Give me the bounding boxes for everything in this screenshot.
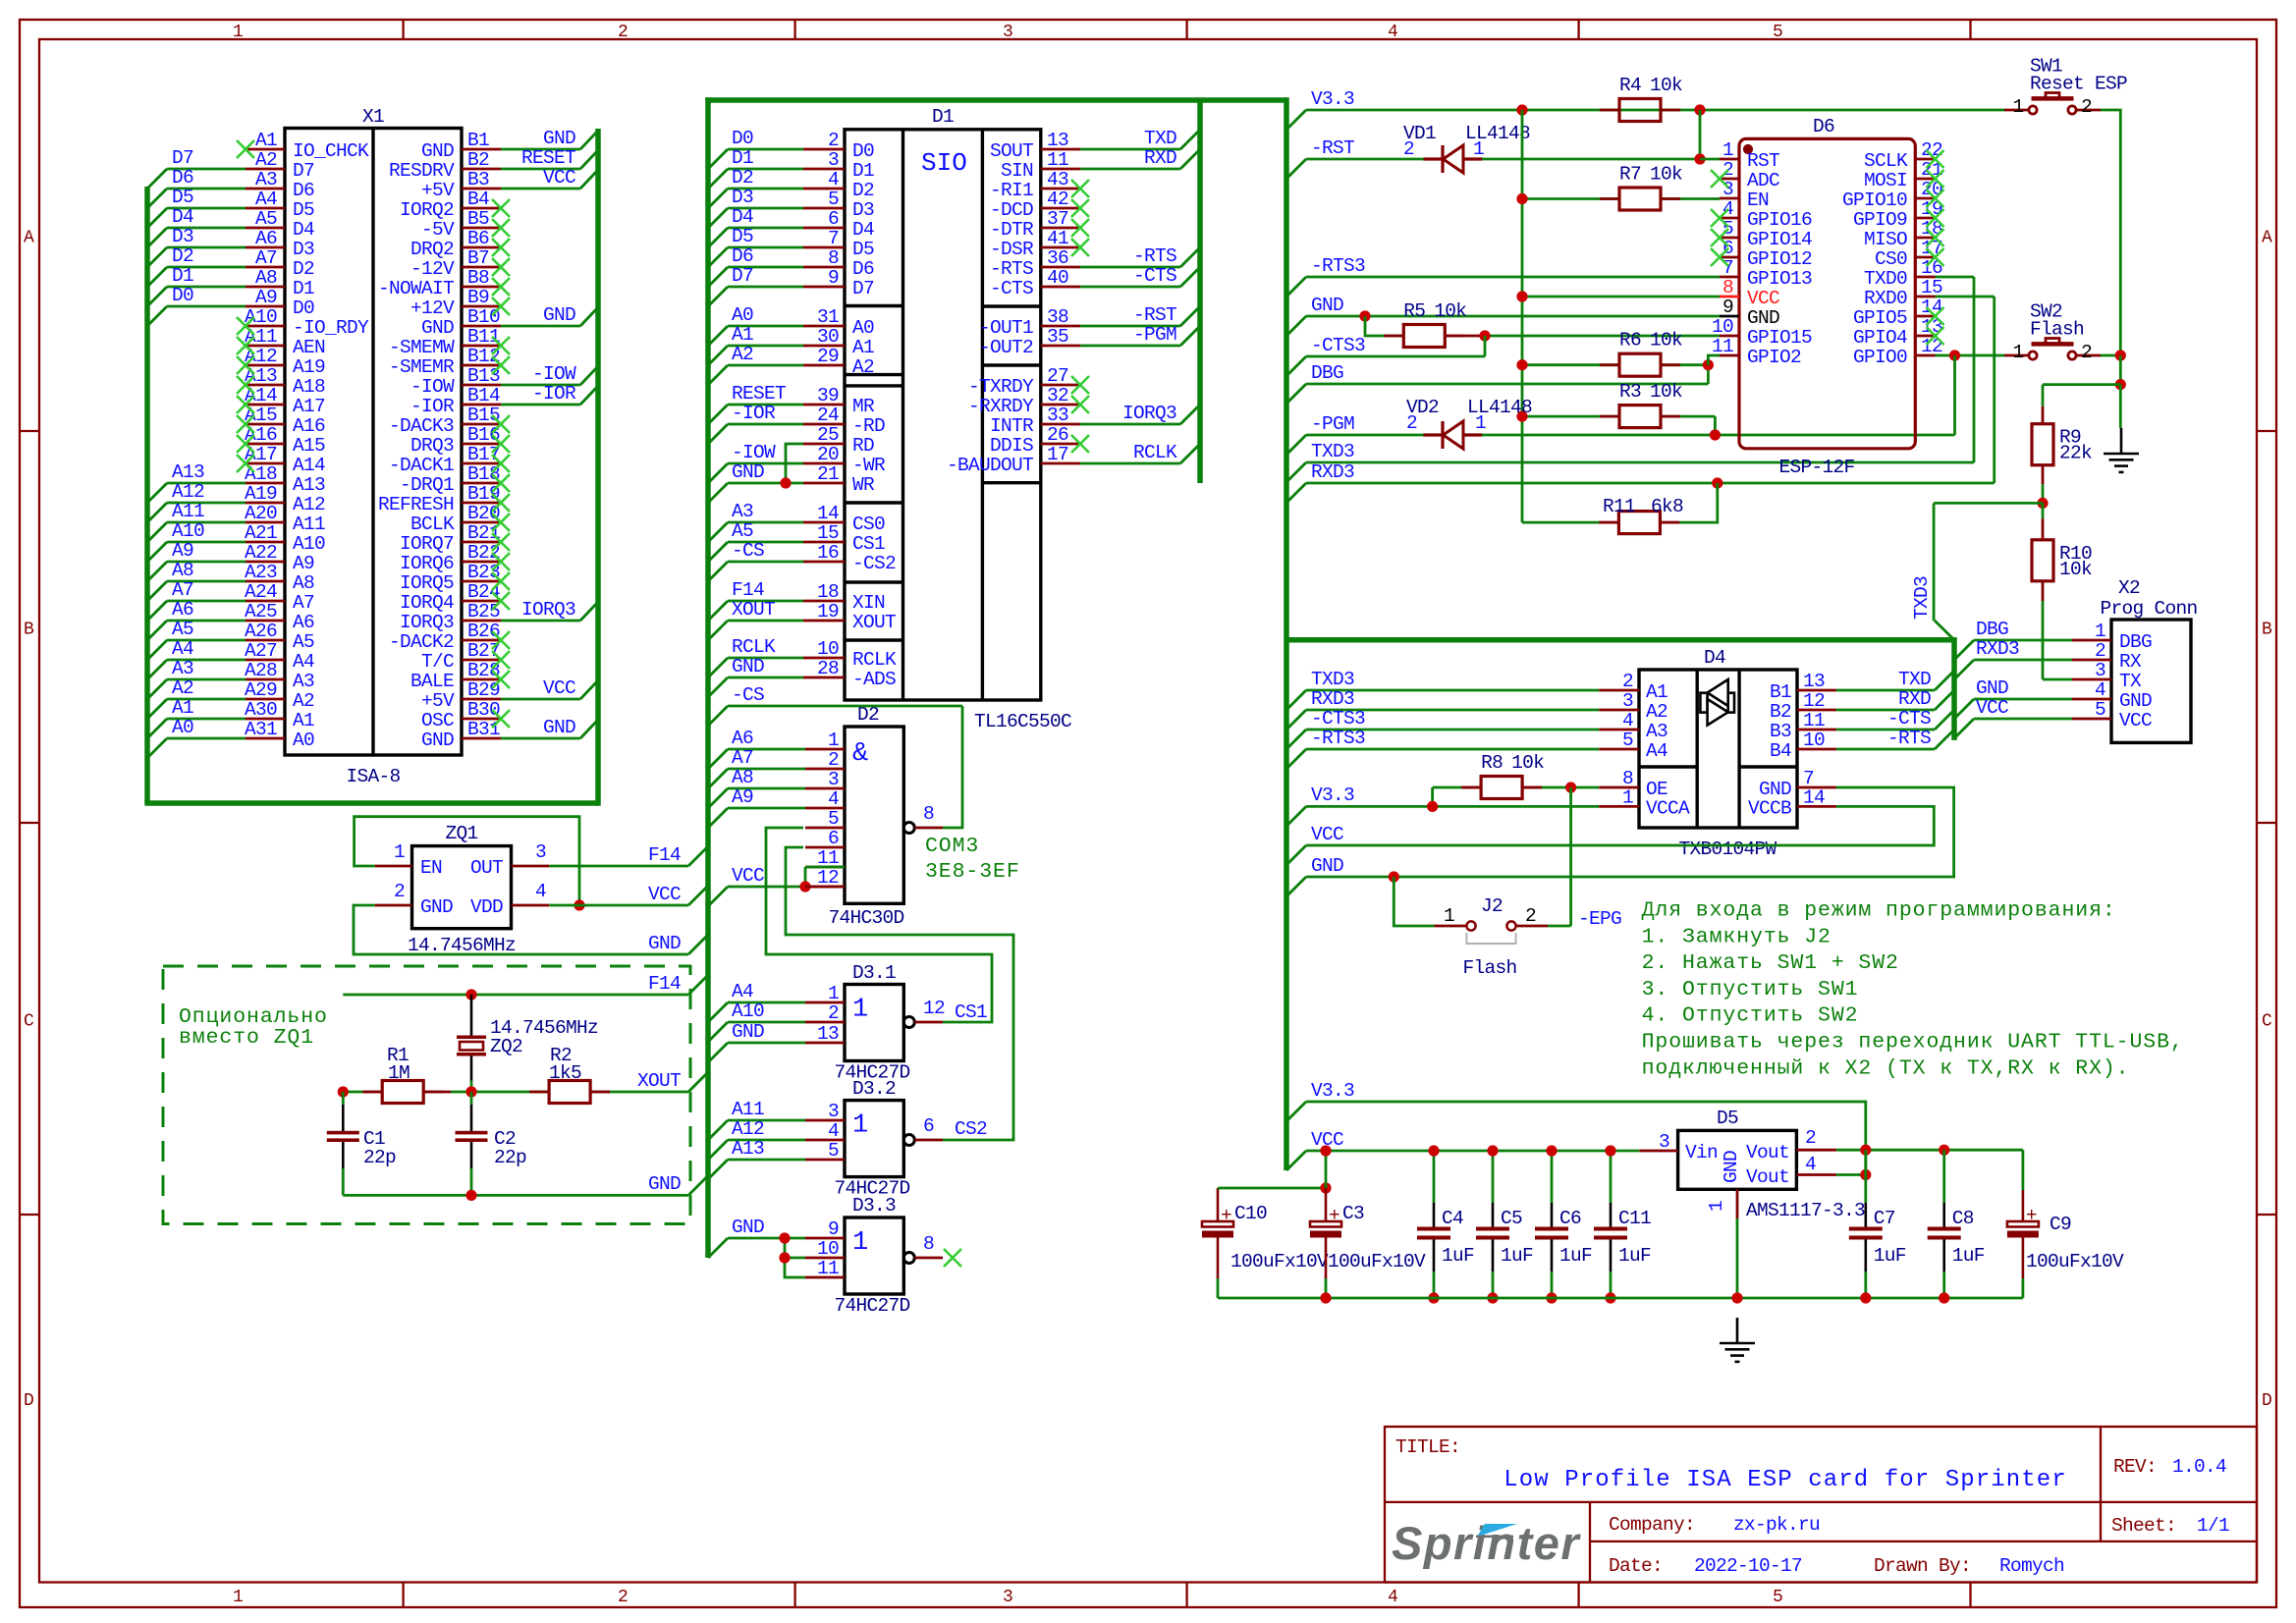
D1 pin 37 -DTR: [1041, 227, 1080, 230]
svg-text:B10: B10: [467, 306, 500, 328]
X1 pin A22: [246, 561, 285, 564]
resistor R6 10k: [1619, 353, 1661, 376]
X1 pin B27: [462, 659, 501, 662]
svg-text:IORQ2: IORQ2: [400, 199, 454, 221]
svg-text:GPIO0: GPIO0: [1853, 347, 1907, 368]
svg-text:Prog Conn: Prog Conn: [2100, 598, 2197, 620]
svg-text:-TXRDY: -TXRDY: [968, 376, 1034, 398]
svg-text:X1: X1: [362, 106, 384, 128]
ZQ1 pin 3 OUT: [512, 865, 550, 868]
svg-text:A0: A0: [293, 730, 314, 751]
D3.1 pin 2: [805, 1021, 845, 1024]
svg-text:C3: C3: [1342, 1203, 1364, 1224]
wire TXD3 to R9/R10 junction: [1934, 502, 2043, 505]
svg-text:A9: A9: [172, 540, 193, 562]
svg-text:A5: A5: [255, 208, 277, 230]
D1 pin 38 -OUT1: [1041, 325, 1080, 328]
svg-text:11: 11: [1712, 336, 1733, 357]
svg-text:-SMEMW: -SMEMW: [389, 337, 455, 358]
X1 pin B9: [462, 305, 501, 308]
svg-text:10: 10: [817, 638, 839, 660]
D1 pin 30 A1: [803, 345, 845, 348]
svg-text:A8: A8: [732, 767, 753, 788]
D1 pin 3 D1: [803, 168, 845, 171]
svg-text:D3.2: D3.2: [852, 1078, 896, 1100]
X1 pin B28: [462, 678, 501, 681]
svg-text:A3: A3: [732, 501, 753, 522]
D5 pin 4 Vout: [1796, 1173, 1836, 1176]
svg-text:B18: B18: [467, 463, 500, 485]
svg-text:VCC: VCC: [1311, 824, 1343, 845]
X1 pin A24: [246, 600, 285, 603]
D6 pin 14 GPIO5: [1915, 315, 1935, 318]
X1 pin B20: [462, 521, 501, 524]
svg-text:R8: R8: [1481, 752, 1503, 774]
junction R7 V3.3: [1516, 193, 1527, 204]
wire F14 optional: [343, 994, 688, 997]
wire -CTS3: [1306, 355, 1485, 358]
bus D1 left vertical: [705, 97, 711, 1258]
resistor R9 22k: [2032, 424, 2053, 465]
svg-text:1uF: 1uF: [1874, 1245, 1906, 1267]
svg-text:-PGM: -PGM: [1311, 413, 1354, 435]
D1 pin 17 -BAUDOUT: [1041, 462, 1080, 465]
svg-text:GPIO9: GPIO9: [1853, 209, 1907, 231]
wire VCC pin8: [1522, 296, 1720, 298]
D1 pin 5 D3: [803, 207, 845, 210]
X1 pin B2: [462, 168, 501, 171]
svg-text:A4: A4: [1646, 740, 1667, 762]
X2 wires: [1974, 639, 2072, 642]
IC D3.3 74HC27D: [845, 1217, 903, 1294]
svg-text:B13: B13: [467, 365, 500, 387]
svg-text:32: 32: [1047, 385, 1068, 406]
X1 pin A17: [246, 462, 285, 465]
svg-text:DBG: DBG: [2119, 631, 2152, 653]
svg-text:RCLK: RCLK: [852, 649, 897, 671]
svg-text:TXD3: TXD3: [1311, 441, 1354, 462]
svg-text:1: 1: [233, 1588, 243, 1607]
D1 pin 31 A0: [803, 325, 845, 328]
ground power rail: [1720, 1318, 1755, 1362]
junction V3.3 R4: [1516, 104, 1527, 115]
svg-text:VDD: VDD: [470, 896, 503, 918]
junction R4 SW1: [1694, 104, 1705, 115]
svg-text:C8: C8: [1952, 1208, 1974, 1229]
D4 B-side wires: [1836, 689, 1935, 692]
svg-text:REV:: REV:: [2113, 1456, 2157, 1478]
svg-text:BALE: BALE: [410, 671, 454, 692]
wire R4 to -RST: [1699, 110, 1702, 159]
D1 left wires from bus: [728, 148, 803, 151]
D5 pin 3 Vin: [1639, 1150, 1677, 1153]
D1 pin 35 -OUT2: [1041, 345, 1080, 348]
svg-text:IORQ3: IORQ3: [521, 599, 575, 621]
svg-text:A6: A6: [732, 728, 753, 749]
X1 pin B17: [462, 462, 501, 465]
svg-text:11: 11: [1803, 710, 1825, 731]
svg-text:D1: D1: [852, 160, 874, 182]
junction C8 top: [1939, 1145, 1949, 1156]
svg-text:ADC: ADC: [1747, 170, 1779, 191]
svg-text:GND: GND: [1311, 855, 1343, 877]
junction crystal node: [465, 1086, 476, 1097]
svg-text:J2: J2: [1481, 895, 1503, 917]
svg-text:27: 27: [1047, 365, 1068, 387]
D5 pin 1 GND: [1736, 1189, 1739, 1218]
svg-text:D4: D4: [852, 219, 874, 241]
D6 pin 13 GPIO4: [1915, 335, 1935, 338]
svg-text:RXD3: RXD3: [1976, 638, 2019, 660]
svg-text:D5: D5: [732, 226, 753, 247]
D4 pin 1 VCCA: [1599, 805, 1639, 808]
X1 pin A30: [246, 718, 285, 721]
svg-text:D1: D1: [293, 278, 314, 299]
X1 pin A15: [246, 423, 285, 426]
X1 pin A9: [246, 305, 285, 308]
svg-text:1: 1: [852, 1228, 868, 1258]
svg-text:+: +: [2026, 1205, 2037, 1226]
X1 pin B31: [462, 737, 501, 740]
svg-text:-OUT1: -OUT1: [979, 317, 1033, 339]
svg-text:AMS1117-3.3: AMS1117-3.3: [1746, 1200, 1865, 1221]
svg-text:B27: B27: [467, 640, 500, 662]
D1 pin 9 D7: [803, 286, 845, 289]
capacitor C7 1uF: [1864, 1150, 1867, 1203]
svg-text:1M: 1M: [388, 1062, 410, 1084]
svg-text:B26: B26: [467, 621, 500, 642]
svg-text:4: 4: [1622, 710, 1633, 731]
svg-text:A9: A9: [255, 287, 277, 308]
svg-text:A9: A9: [732, 786, 753, 808]
svg-text:A1: A1: [255, 130, 277, 151]
svg-text:5: 5: [1773, 1588, 1782, 1607]
D6 pin 20 GPIO10: [1915, 197, 1935, 200]
X1 no-connect marks B side: [492, 199, 510, 217]
resistor R4 10k: [1619, 99, 1661, 122]
wire J2 left to GND: [1394, 877, 1434, 926]
svg-text:22p: 22p: [363, 1147, 396, 1168]
X1 pin B11: [462, 345, 501, 348]
X1 no-connect marks A side: [237, 140, 254, 158]
svg-text:-DACK1: -DACK1: [389, 455, 454, 476]
svg-text:A19: A19: [245, 483, 277, 505]
svg-text:2: 2: [618, 1588, 628, 1607]
svg-text:10: 10: [1803, 730, 1825, 751]
svg-text:B20: B20: [467, 503, 500, 524]
svg-text:+12V: +12V: [410, 298, 455, 319]
svg-text:D: D: [2262, 1391, 2271, 1411]
svg-text:VCC: VCC: [648, 884, 681, 905]
junction R3 V3.3: [1516, 411, 1527, 422]
diode VD2 LL4148: [1424, 433, 1444, 436]
capacitor C3 100uFx10V: [1310, 1221, 1341, 1227]
junction R1 left: [338, 1086, 349, 1097]
X1 pin A5: [246, 227, 285, 230]
D2 pin 11: [805, 866, 845, 869]
svg-text:17: 17: [1047, 444, 1068, 465]
svg-text:A15: A15: [293, 435, 325, 457]
svg-text:1: 1: [828, 730, 839, 751]
svg-text:B2: B2: [1770, 701, 1791, 723]
svg-text:-BAUDOUT: -BAUDOUT: [947, 455, 1033, 476]
svg-text:MISO: MISO: [1864, 229, 1907, 250]
svg-text:ISA-8: ISA-8: [346, 766, 400, 787]
D6 pin 4 GPIO16: [1720, 217, 1739, 220]
svg-text:GND: GND: [1976, 677, 2008, 699]
D1 pin 26 DDIS: [1041, 443, 1080, 446]
X1 pin B21: [462, 541, 501, 544]
svg-text:10: 10: [1712, 316, 1733, 338]
svg-text:1: 1: [1444, 905, 1454, 927]
svg-text:D5: D5: [852, 239, 874, 260]
D1 pin 14 CS0: [803, 521, 845, 524]
D3.1 input wires: [728, 1001, 805, 1004]
svg-text:CS0: CS0: [1875, 248, 1907, 270]
svg-text:D5: D5: [1717, 1108, 1738, 1129]
bus D1 top horizontal: [705, 97, 1286, 103]
svg-text:A31: A31: [245, 719, 277, 740]
svg-text:A22: A22: [245, 542, 277, 564]
svg-text:BCLK: BCLK: [410, 514, 455, 535]
D6 pin 16 TXD0: [1915, 276, 1935, 279]
X1 pin A14: [246, 404, 285, 406]
svg-text:14: 14: [817, 503, 839, 524]
svg-text:1: 1: [233, 23, 243, 42]
junction -RST ESP pin1: [1694, 153, 1705, 164]
svg-text:13: 13: [817, 1023, 839, 1045]
svg-text:42: 42: [1047, 189, 1068, 210]
svg-text:100uFx10V: 100uFx10V: [2026, 1251, 2124, 1272]
svg-text:11: 11: [817, 1258, 839, 1279]
D2 pin 3: [805, 787, 845, 790]
D6 pin 9 GND: [1720, 315, 1739, 318]
svg-text:SIO: SIO: [921, 148, 967, 178]
D4 level shifter triangles: [1700, 693, 1707, 713]
svg-text:2: 2: [2095, 640, 2105, 662]
wire OE down to J2: [1569, 787, 1572, 926]
svg-text:1: 1: [2012, 96, 2023, 118]
connector X1 ISA-8: [285, 129, 462, 756]
X1 pin A13: [246, 384, 285, 387]
svg-text:Date:: Date:: [1609, 1555, 1663, 1577]
svg-text:D2: D2: [293, 258, 314, 280]
D4 pin 8 OE: [1599, 786, 1639, 789]
svg-text:1. Замкнуть J2: 1. Замкнуть J2: [1642, 925, 1831, 948]
wire GPIO0 net down to -PGM: [1953, 355, 1956, 435]
svg-text:TXB0104PW: TXB0104PW: [1678, 839, 1777, 860]
svg-text:GND: GND: [732, 656, 764, 677]
svg-text:A4: A4: [293, 651, 314, 673]
svg-text:R11: R11: [1603, 496, 1635, 517]
resistor R5 10k: [1403, 325, 1445, 348]
svg-text:B1: B1: [467, 130, 489, 151]
svg-text:25: 25: [817, 424, 839, 446]
svg-text:D3.1: D3.1: [852, 962, 896, 984]
junction ZQ1 VDD: [574, 899, 584, 910]
svg-text:A2: A2: [852, 356, 874, 378]
D1 pin 36 -RTS: [1041, 266, 1080, 269]
svg-text:-IOW: -IOW: [532, 363, 576, 385]
svg-text:Sheet:: Sheet:: [2111, 1515, 2176, 1537]
svg-text:-RST: -RST: [1311, 137, 1354, 159]
D1 pin 41 -DSR: [1041, 246, 1080, 249]
capacitor C2 22p: [470, 1092, 473, 1105]
D1 pin 4 D2: [803, 188, 845, 190]
svg-text:VCC: VCC: [543, 677, 575, 699]
svg-text:B12: B12: [467, 346, 500, 367]
svg-text:2: 2: [1403, 138, 1414, 160]
wire VCC to D2 pins 11,12: [728, 886, 805, 889]
svg-text:Vout: Vout: [1746, 1166, 1789, 1188]
wire CS1 from D3.1 to D2 pin5: [766, 828, 992, 1022]
X1 pin A27: [246, 659, 285, 662]
svg-text:RESET: RESET: [521, 147, 575, 169]
svg-text:GPIO13: GPIO13: [1747, 268, 1812, 290]
capacitor C1 22p: [342, 1092, 345, 1105]
D3.1 output pin 12: [903, 1017, 914, 1028]
svg-text:A12: A12: [293, 494, 325, 515]
D1 pin 10 RCLK: [803, 657, 845, 660]
svg-text:D7: D7: [732, 265, 753, 287]
svg-text:Company:: Company:: [1609, 1514, 1695, 1536]
svg-text:1uF: 1uF: [1501, 1245, 1533, 1267]
svg-text:-IOR: -IOR: [410, 396, 455, 417]
junction C3 VCC: [1320, 1145, 1331, 1156]
svg-text:3: 3: [1003, 23, 1012, 42]
X1 pin A2: [246, 168, 285, 171]
svg-text:1/1: 1/1: [2197, 1515, 2229, 1537]
svg-text:-IOR: -IOR: [732, 403, 776, 424]
svg-text:B25: B25: [467, 601, 500, 622]
ZQ1 pin 2 GND: [375, 904, 412, 907]
X1 pin A29: [246, 698, 285, 701]
D6 pin 3 EN: [1720, 197, 1739, 200]
svg-text:22p: 22p: [494, 1147, 526, 1168]
svg-text:11: 11: [1047, 149, 1068, 171]
svg-text:D6: D6: [1813, 116, 1834, 137]
svg-text:D6: D6: [293, 180, 314, 201]
D6 pin 22 SCLK: [1915, 158, 1935, 161]
svg-text:A1: A1: [732, 324, 753, 346]
svg-text:DRQ2: DRQ2: [410, 239, 454, 260]
svg-text:D6: D6: [852, 258, 874, 280]
D6 right no-connects: [1927, 150, 1944, 168]
svg-text:1: 1: [1722, 139, 1733, 161]
D1 right side wires to bus: [1080, 148, 1180, 151]
svg-text:31: 31: [817, 306, 839, 328]
svg-text:B31: B31: [467, 719, 500, 740]
svg-text:D2: D2: [172, 245, 193, 267]
svg-text:B9: B9: [467, 287, 489, 308]
svg-text:VCC: VCC: [1747, 288, 1779, 309]
svg-text:37: 37: [1047, 208, 1068, 230]
svg-text:B21: B21: [467, 522, 500, 544]
junction GND J2: [1389, 871, 1399, 882]
svg-text:Romych: Romych: [1999, 1555, 2064, 1577]
wire Vout rail: [1836, 1149, 2023, 1152]
svg-text:D5: D5: [293, 199, 314, 221]
X1 pin B1: [462, 148, 501, 151]
svg-text:A3: A3: [293, 671, 314, 692]
svg-text:SIN: SIN: [1001, 160, 1033, 182]
svg-text:-IOW: -IOW: [410, 376, 455, 398]
svg-text:A6: A6: [172, 599, 193, 621]
svg-text:-CS: -CS: [732, 540, 764, 562]
svg-text:1uF: 1uF: [1442, 1245, 1474, 1267]
D1 pin 11 SIN: [1041, 168, 1080, 171]
svg-text:4: 4: [1388, 23, 1397, 42]
svg-text:A24: A24: [245, 581, 277, 603]
D1 pin 8 D6: [803, 266, 845, 269]
svg-text:DDIS: DDIS: [990, 435, 1033, 457]
svg-text:A5: A5: [732, 520, 753, 542]
wire -CS to D2 pin8: [728, 705, 962, 708]
svg-text:XOUT: XOUT: [637, 1070, 681, 1092]
svg-text:74HC30D: 74HC30D: [828, 907, 903, 929]
bus D4 horizontal: [1286, 637, 1954, 643]
svg-text:10k: 10k: [1650, 381, 1682, 403]
svg-text:GND: GND: [1721, 1151, 1742, 1183]
svg-text:TITLE:: TITLE:: [1395, 1436, 1460, 1458]
X1 pin A31: [246, 737, 285, 740]
X1 pin B18: [462, 482, 501, 485]
wire RD pin25 jog to WR: [786, 444, 803, 483]
resistor lead touch-ups: [1600, 109, 1619, 112]
wire GND to D4 pin7: [1306, 787, 1954, 877]
svg-text:-ADS: -ADS: [852, 669, 896, 690]
svg-text:-5V: -5V: [421, 219, 455, 241]
svg-text:B1: B1: [1770, 681, 1791, 703]
svg-text:COM3: COM3: [925, 835, 979, 858]
X1 pin B19: [462, 502, 501, 505]
svg-text:MR: MR: [852, 396, 875, 417]
svg-text:X2: X2: [2118, 577, 2140, 599]
junction SW2 GND column: [2115, 350, 2126, 360]
svg-text:10k: 10k: [2059, 559, 2092, 580]
svg-text:RXD: RXD: [1898, 688, 1931, 710]
svg-text:GPIO12: GPIO12: [1747, 248, 1812, 270]
X1 pin B23: [462, 580, 501, 583]
X1 pin B6: [462, 246, 501, 249]
svg-text:2: 2: [394, 881, 405, 902]
svg-text:-RXRDY: -RXRDY: [968, 396, 1034, 417]
svg-text:B28: B28: [467, 660, 500, 681]
wire VCC power: [1306, 1150, 1639, 1153]
D3.1 pin 13: [805, 1042, 845, 1045]
X1 pin A7: [246, 266, 285, 269]
junction VCC pin8: [1516, 291, 1527, 301]
X1 pin A23: [246, 580, 285, 583]
svg-text:GPIO2: GPIO2: [1747, 347, 1801, 368]
bus D1 mid vertical: [1197, 100, 1203, 483]
svg-text:B3: B3: [1770, 721, 1791, 742]
D6 pin 18 MISO: [1915, 237, 1935, 240]
svg-text:B19: B19: [467, 483, 500, 505]
svg-text:10k: 10k: [1511, 752, 1544, 774]
svg-text:3: 3: [1003, 1588, 1012, 1607]
D3.2 pin 3: [805, 1119, 845, 1122]
svg-text:5: 5: [828, 189, 839, 210]
svg-text:14: 14: [1803, 786, 1825, 808]
svg-text:A3: A3: [1646, 721, 1667, 742]
junction VCC pin12: [799, 881, 810, 892]
svg-text:B2: B2: [467, 149, 489, 171]
svg-text:D1: D1: [932, 106, 954, 128]
svg-text:10k: 10k: [1650, 164, 1682, 186]
svg-text:B7: B7: [467, 247, 489, 269]
svg-text:A7: A7: [172, 579, 193, 601]
